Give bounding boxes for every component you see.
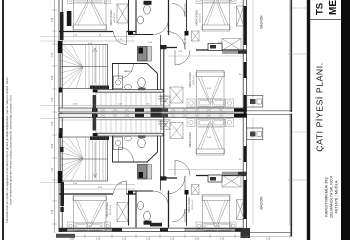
party wall fill segment B [135,108,144,111]
svg-text:3.45: 3.45 [52,209,54,214]
sidebar top divider [310,19,341,21]
lintel bar under stairs [90,86,109,90]
dim line h y105 [59,105,160,107]
wc toilet [144,5,151,14]
svg-text:(9.91 m²): (9.91 m²) [192,75,195,84]
nightstand B3 right [226,99,234,107]
bedroom2 door arc [167,32,185,50]
nightstand B2 right [230,0,236,4]
svg-text:1.65: 1.65 [52,97,54,102]
wall stub x93 dark [93,95,96,112]
banyo door arc [119,64,134,79]
svg-text:YATAK ODASI: YATAK ODASI [189,72,192,88]
window bar right wall y95 [244,95,246,116]
svg-text:2.25: 2.25 [52,75,54,80]
svg-text:KARGIT MİM.MÜH.İNŞ: KARGIT MİM.MÜH.İNŞ [324,177,329,217]
wall below bedroom1 [59,31,113,33]
banyo sink [125,85,132,90]
wall right outer [243,0,246,112]
corridor door arc top [172,4,185,17]
column fill c1 [128,32,133,36]
wall below bedroom2 right part [196,49,246,51]
window bar left wall long lower [60,182,64,206]
svg-text:YATAK ODASI: YATAK ODASI [189,132,192,148]
left page border line [2,0,4,240]
bedroom3 door arc [175,50,190,65]
bottom dimension line [59,235,290,237]
banyo outline [113,64,158,91]
svg-text:2.25: 2.25 [52,143,54,148]
svg-text:YATAK ODASI: YATAK ODASI [188,197,191,213]
window pier left at stairs top [58,41,62,53]
bed B2 top-right [202,0,231,31]
window pier left small 1 [59,128,62,134]
wall below bedroom2 y47 [163,47,177,49]
balcony party line [247,110,291,112]
staircase walk line with arrow [93,48,97,83]
wc bottom edge dark bar [150,223,162,227]
balcony bottom wall line [246,232,291,234]
nightstand B1 left [68,0,74,4]
bottom-left dark block [56,234,75,238]
staircase winder outline [61,45,108,89]
balcony outer line bottom extension [290,224,292,237]
wall left outer [59,0,62,112]
right margin tick y180 [288,179,306,181]
party wall X hatches [100,108,224,112]
column fill c3 [160,45,167,49]
shaft chimney block [138,47,148,62]
middle flight boundary [96,93,161,107]
svg-text:BALKON: BALKON [260,15,264,29]
wall hall y92 [93,90,163,93]
bedroom1 door arc [114,32,127,45]
cabinet hall [161,96,170,106]
shaft second bar [147,47,152,62]
svg-text:(10.59 m²): (10.59 m²) [113,13,116,23]
left wall small block y88 [59,88,63,93]
column fill c2 [185,31,189,36]
balcony outer edge [290,0,292,112]
svg-text:BALKON: BALKON [260,196,264,210]
unit plan (top), mirrored below [59,0,291,112]
svg-text:3.15 m2: 3.15 m2 [160,101,167,103]
dim line h y36.5 [59,36,135,38]
svg-text:YATAK ODASI: YATAK ODASI [110,10,113,26]
party wall fill segment A [92,108,98,111]
bed B3 middle-right (pillows at bottom) [196,71,225,108]
wall stub right of door1 [127,31,137,33]
hall text cluster top [158,96,168,103]
wall wc right x168.5 [168,0,170,35]
shaft block at party wall [151,108,162,118]
bed B1 top-left [73,0,107,31]
svg-text:ÇATI PİYESİ PLANI.: ÇATI PİYESİ PLANI. [315,62,325,151]
wall wc bottom y34.5 [129,34,154,36]
left wall small block y147 [60,147,64,152]
window bar left wall upper [67,11,72,26]
bottom dimension numbers [70,239,271,240]
left wall small block y133 [59,133,63,138]
nightstand B1 right [105,0,111,4]
window pier left at stairs bottom [58,171,62,183]
left wall window bar top [60,12,64,40]
scattered dimension numbers [73,35,242,190]
staircase risers straight flights [86,45,106,89]
staircase mid line [61,66,108,68]
window bar right wall y185 [244,180,247,219]
svg-text:YATAK ODASI: YATAK ODASI [196,10,199,26]
nightstand B3 left [187,99,195,107]
svg-text:3.45: 3.45 [52,17,54,22]
wc sink [138,16,144,24]
wall corridor vertical x128 [128,0,130,32]
wall corridor x186.5 [186,0,188,35]
wardrobe bedroom1 [117,4,128,23]
wall fill below wardrobe2b [222,51,238,54]
sidebar right black edge [341,0,350,240]
dim line h y58 right [168,55,243,57]
middle flight risers [101,93,156,107]
balcony inner dim line [252,0,254,108]
wardrobe bedroom3 [170,87,183,103]
dim chain left numbers [52,17,54,214]
right margin small ticks [292,8,306,132]
party wall band [59,108,247,112]
column fill c4 [93,90,98,93]
window pier left small 2 [60,207,63,212]
svg-text:Kesin yerleşmede gösterilen te: Kesin yerleşmede gösterilen tefrişat mob… [9,95,13,205]
svg-text:202.MANOLYA SK. NO:4: 202.MANOLYA SK. NO:4 [330,176,334,218]
wc door arc [153,19,169,35]
wall wc left x136 [135,0,137,35]
unit plan mirrored (bottom) [59,114,291,232]
svg-text:1.20: 1.20 [52,52,54,57]
dim chain left ticks [52,10,57,224]
wardrobe bedroom2b corner [222,39,241,51]
banyo shower tray [113,76,123,89]
wardrobe bedroom2 [237,6,245,26]
shaft inner black [139,48,144,54]
svg-text:1.20: 1.20 [52,167,54,172]
banyo toilet [138,78,146,88]
svg-text:(10.62 m²): (10.62 m²) [109,205,112,215]
party wall fill segment C [160,108,168,111]
window bar right wall y62 [244,62,246,78]
party wall fill segment D [234,108,246,111]
shaft box x191 [192,31,200,41]
svg-text:YATAK ODASI: YATAK ODASI [106,202,109,218]
window bar right wall y146 [244,146,246,162]
svg-text:3.15 m2: 3.15 m2 [160,126,167,128]
balcony parapet box top unit [247,96,263,108]
svg-text:(9.52 m²): (9.52 m²) [191,200,194,209]
nightstand B2 left [196,0,202,4]
dim chain left v3 [54,0,56,233]
svg-text:1.65: 1.65 [52,121,54,126]
dim line h y41 [59,40,135,42]
window bar right wall y6 [244,6,247,45]
svg-text:(9.52 m²): (9.52 m²) [199,13,202,22]
svg-text:FETHİYE / MUĞLA: FETHİYE / MUĞLA [333,180,338,213]
balcony parapet box bottom unit [247,128,263,140]
svg-text:TS: TS [315,3,326,15]
right margin tick y54 [288,53,306,55]
hall text cluster bottom [158,121,168,128]
svg-text:ME: ME [328,0,339,15]
staircase winder fan treads [61,45,84,89]
wall bedroom3 left x163 [163,48,165,109]
sidebar inner black line [307,0,310,240]
bottom-right corner block [241,228,251,238]
wall corridor x160 [160,35,162,92]
left margin extra ticks [40,37,58,183]
svg-text:BANYO: BANYO [124,70,132,73]
window box on wall y44 [208,44,222,51]
